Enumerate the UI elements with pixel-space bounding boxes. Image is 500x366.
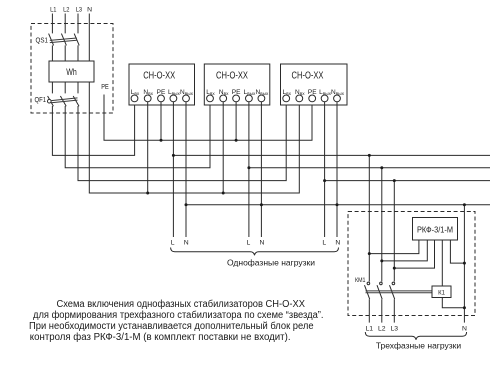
svg-text:Однофазные нагрузки: Однофазные нагрузки	[227, 258, 315, 268]
wire KM1 pole2 lower	[381, 299, 383, 322]
stabilizer U1 box	[129, 64, 195, 105]
wire U2 PE drop	[235, 102, 237, 140]
svg-text:L: L	[322, 240, 326, 247]
wire K1 to N	[442, 298, 464, 308]
wire U3 Nvyx to load3 N	[336, 102, 338, 237]
input section dashed box	[31, 24, 113, 114]
meter Wh box	[49, 61, 94, 82]
wire RKF drop phase1	[368, 155, 370, 281]
wire RKF drop phase2	[381, 168, 383, 282]
U2 terminal labels	[206, 89, 269, 96]
wire RKF drop phase3	[393, 181, 395, 282]
svg-text:N: N	[87, 7, 92, 14]
svg-text:QS1: QS1	[36, 38, 49, 45]
svg-text:L2: L2	[63, 7, 70, 14]
stabilizer U3 box	[281, 64, 348, 105]
svg-text:Трехфазные нагрузки: Трехфазные нагрузки	[376, 341, 462, 351]
wire RKF pin5 to N	[450, 240, 464, 263]
svg-text:L3: L3	[76, 7, 83, 14]
wire U1 PE drop	[160, 102, 162, 140]
svg-text:L3: L3	[391, 326, 399, 333]
U1 terminal labels	[131, 89, 194, 96]
svg-text:L1: L1	[50, 7, 57, 14]
relay RKF-3/1-M box	[413, 218, 458, 241]
wire U2 Nvx drop	[222, 102, 224, 193]
wire L3	[78, 14, 286, 181]
wire RKF pin3	[394, 240, 434, 268]
wire U3 Lvyx to load3 L	[324, 102, 326, 237]
wire output bus L1out	[173, 154, 490, 156]
wire U1 Lvyx to load1 L	[172, 102, 174, 237]
contactor KM1 linkage bars	[366, 291, 433, 293]
wire L1	[52, 14, 134, 156]
svg-text:N: N	[335, 240, 340, 247]
stabilizer U2 box	[204, 64, 269, 105]
svg-text:К1: К1	[438, 291, 445, 297]
wire RKF pin2	[382, 240, 428, 261]
breaker QF1 linkage bars	[51, 98, 77, 103]
breaker QF1 circle	[48, 99, 52, 103]
svg-text:N: N	[259, 240, 264, 247]
wire N	[89, 14, 299, 194]
U2 terminal circles	[207, 95, 265, 102]
wire KM1 pole3 lower	[393, 299, 395, 322]
relay RKF dashed box	[348, 212, 475, 316]
svg-text:PE: PE	[101, 84, 109, 91]
wire U1 Nvyx to load1 N	[185, 102, 187, 237]
svg-text:КМ1: КМ1	[355, 277, 366, 284]
svg-text:QF1: QF1	[35, 97, 47, 104]
svg-text:для формирования трехфазного с: для формирования трехфазного стабилизато…	[33, 309, 324, 321]
wire output bus Nout	[186, 204, 490, 206]
contactor KM1 blades	[365, 285, 395, 299]
switch QS1 linkage bars	[50, 38, 77, 43]
svg-text:СН-О-ХХ: СН-О-ХХ	[216, 70, 248, 81]
coil K1 box	[432, 286, 451, 298]
contactor KM1 circles	[367, 282, 370, 285]
switch QS1 blades	[49, 34, 80, 46]
brace three-phase loads	[365, 332, 466, 340]
U1 terminal circles	[131, 95, 189, 102]
wire output bus L2out	[249, 167, 490, 169]
wire PE	[104, 95, 312, 141]
svg-text:СН-О-ХХ: СН-О-ХХ	[143, 70, 175, 81]
wire U2 Nvyx to load2 N	[260, 102, 262, 237]
wire N drop	[463, 205, 465, 323]
svg-text:Wh: Wh	[66, 67, 77, 77]
wire U2 Lvyx to load2 L	[248, 102, 250, 237]
svg-text:N: N	[462, 326, 467, 333]
svg-text:L1: L1	[366, 326, 374, 333]
wire RKF pin4 to K1	[441, 240, 443, 286]
svg-text:РКФ-3/1-М: РКФ-3/1-М	[417, 224, 453, 234]
U3 terminal labels	[282, 89, 344, 96]
svg-text:N: N	[184, 240, 189, 247]
note paragraph	[29, 298, 324, 343]
brace single-phase loads	[171, 248, 339, 256]
svg-text:L: L	[171, 240, 175, 247]
wire RKF pin1	[369, 240, 419, 254]
wire U1 Nvx drop	[147, 102, 149, 193]
svg-text:При необходимости устанавливае: При необходимости устанавливается дополн…	[29, 320, 314, 332]
wire output bus L3out	[325, 180, 490, 182]
svg-text:Схема включения однофазных ста: Схема включения однофазных стабилизаторо…	[57, 298, 306, 310]
breaker QF1 blades	[48, 96, 79, 106]
svg-text:L: L	[247, 240, 251, 247]
svg-text:контроля фаз РКФ-3/1-М (в комп: контроля фаз РКФ-3/1-М (в комплект поста…	[30, 331, 291, 343]
U3 terminal circles	[283, 95, 341, 102]
svg-text:СН-О-ХХ: СН-О-ХХ	[292, 70, 324, 81]
svg-text:L2: L2	[378, 326, 386, 333]
wire KM1 pole1 lower	[368, 299, 370, 322]
wire L2	[65, 14, 210, 168]
